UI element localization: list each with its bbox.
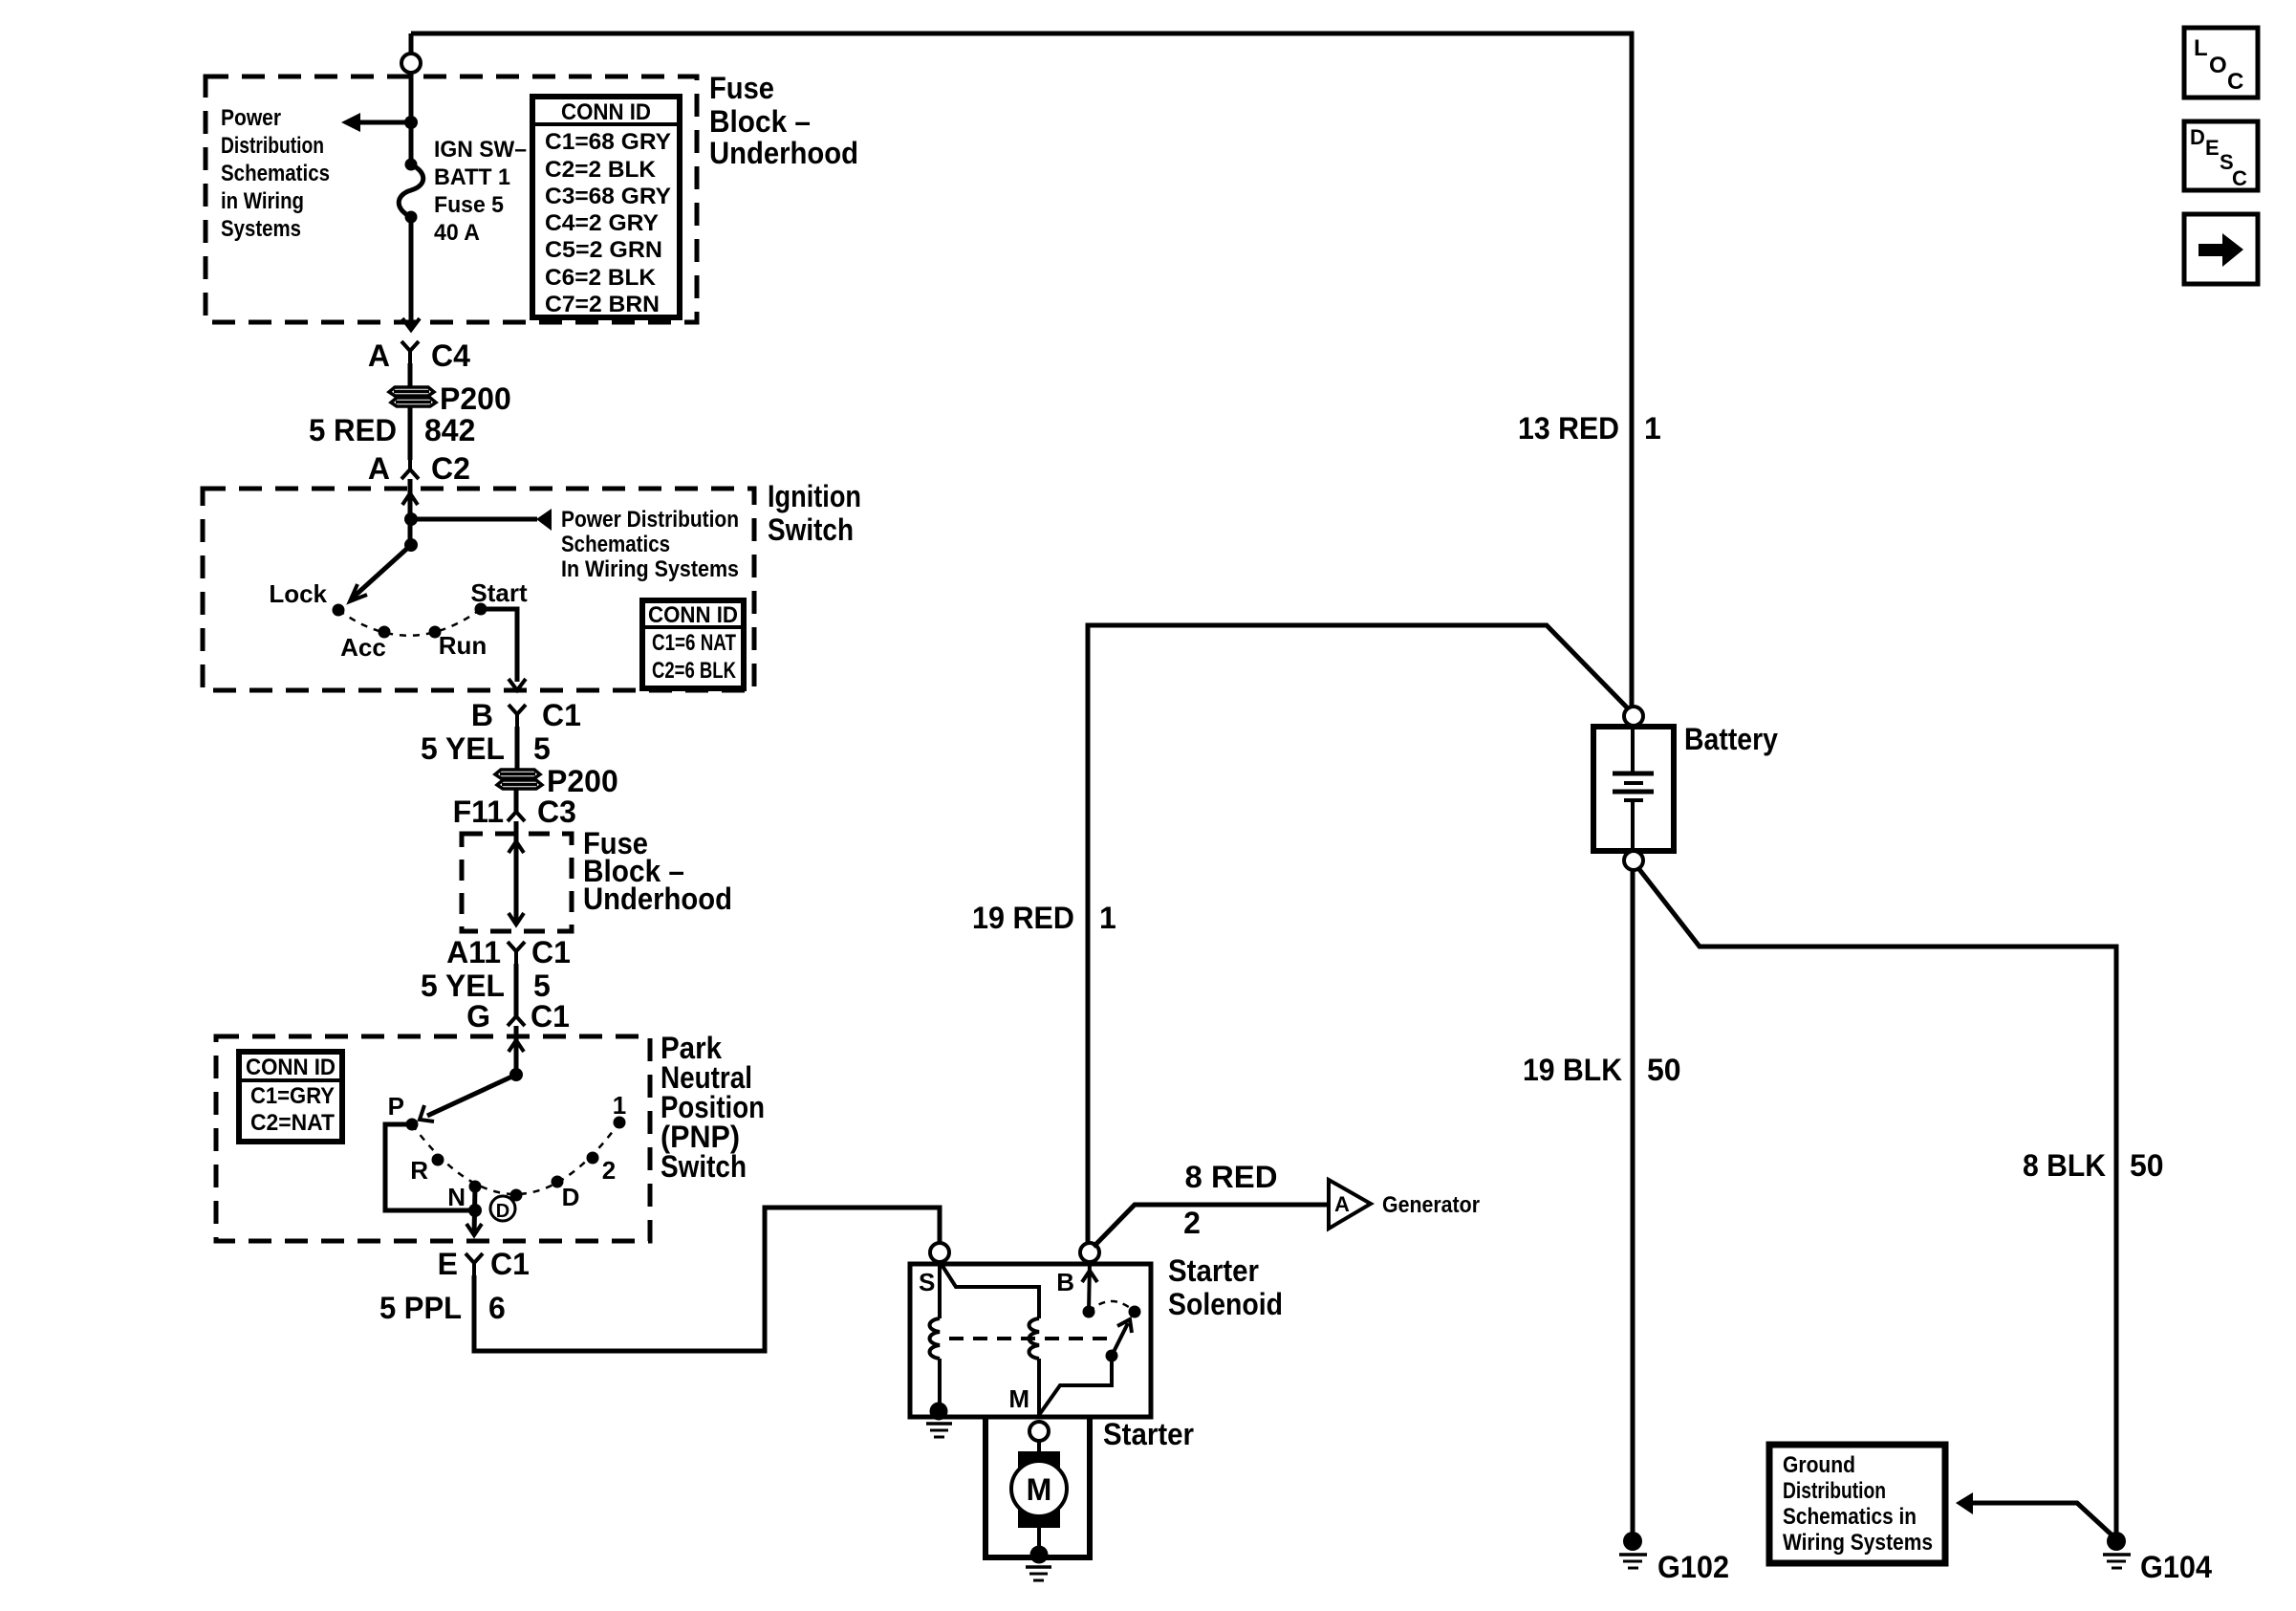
DESC icon box	[2184, 121, 2258, 190]
wire: 13 RED battery feed, top horizontal and right vertical	[411, 33, 1632, 708]
svg-text:Systems: Systems	[221, 216, 301, 242]
svg-text:A11: A11	[446, 935, 501, 969]
svg-text:19 BLK: 19 BLK	[1523, 1053, 1622, 1087]
svg-text:BATT 1: BATT 1	[434, 164, 510, 190]
ground symbol G102	[1619, 1555, 1647, 1568]
splice P200 (upper)	[389, 387, 436, 406]
node: starter ground dot	[1030, 1546, 1049, 1564]
svg-text:in Wiring: in Wiring	[221, 188, 304, 214]
svg-text:CONN ID: CONN ID	[648, 602, 738, 628]
battery negative terminal circle	[1624, 851, 1643, 870]
wire: feed into fuse block	[409, 73, 414, 163]
wire: plunger to M junction	[1039, 1356, 1112, 1415]
contact: Run	[429, 626, 442, 639]
dashed arc of PNP positions	[412, 1122, 619, 1194]
svg-text:Starter: Starter	[1168, 1253, 1259, 1288]
wire: C4 to splice P200	[408, 363, 413, 388]
svg-text:D: D	[562, 1183, 580, 1211]
svg-text:40 A: 40 A	[434, 220, 480, 246]
Battery box	[1593, 727, 1674, 851]
battery cell symbol	[1613, 729, 1654, 848]
switch plunger arm with arrowhead	[1112, 1323, 1128, 1356]
svg-text:Acc: Acc	[340, 633, 386, 662]
svg-text:50: 50	[2130, 1148, 2164, 1183]
svg-text:C7=2 BRN: C7=2 BRN	[545, 292, 660, 317]
svg-text:C2: C2	[431, 451, 470, 486]
wire: 8 RED from B to generator	[1094, 1205, 1329, 1247]
svg-text:P: P	[388, 1092, 404, 1121]
contact: 1	[614, 1117, 626, 1129]
wire label: 5 YEL / 5 (lower)	[421, 969, 551, 1003]
label: Fuse Block - Underhood (lower)	[583, 826, 732, 916]
wire: fuse to connector C4	[409, 223, 414, 329]
svg-text:5: 5	[533, 731, 551, 766]
svg-text:M: M	[1027, 1472, 1052, 1507]
contact dot (moving side)	[1129, 1306, 1141, 1318]
wire: P200 to connector C2	[408, 407, 413, 460]
dashed arc of ignition positions	[338, 609, 481, 636]
value label: IGN SW-BATT 1 Fuse 5 40 A	[434, 137, 527, 246]
coil (hold-in)	[930, 1318, 941, 1359]
svg-text:Schematics in: Schematics in	[1783, 1504, 1917, 1530]
arrowhead leaving PNP switch (down)	[466, 1224, 482, 1235]
svg-text:C2=NAT: C2=NAT	[250, 1110, 335, 1136]
svg-text:S: S	[919, 1268, 935, 1296]
wire inside fuse block with both arrowheads	[514, 841, 519, 925]
svg-text:D: D	[2190, 125, 2205, 149]
svg-text:C1: C1	[531, 935, 571, 969]
wire label: 8 BLK / 50	[2023, 1148, 2164, 1183]
svg-text:P200: P200	[547, 764, 618, 798]
terminal M circle	[1029, 1422, 1049, 1441]
wire: motor to ground	[1037, 1528, 1041, 1555]
svg-text:Run: Run	[439, 631, 487, 660]
contact: Start	[475, 603, 487, 616]
svg-text:Power Distribution: Power Distribution	[561, 507, 739, 533]
connector A11 / C1	[446, 935, 571, 969]
arrowhead leaving ignition switch (down)	[509, 679, 526, 690]
Starter Solenoid box	[910, 1264, 1151, 1417]
svg-text:Distribution: Distribution	[1783, 1478, 1886, 1504]
wire: S diagonal feed to pull-in coil	[941, 1263, 1039, 1318]
svg-text:6: 6	[488, 1291, 506, 1325]
svg-text:1: 1	[1099, 901, 1116, 935]
connector A / C4	[368, 338, 470, 373]
svg-text:C1=68 GRY: C1=68 GRY	[545, 129, 671, 155]
fuse IGN SW-BATT 1 Fuse 5 40 A	[399, 159, 423, 224]
PNP wiper arm to P	[427, 1075, 516, 1116]
svg-text:2: 2	[1183, 1206, 1201, 1240]
svg-text:In Wiring Systems: In Wiring Systems	[561, 556, 739, 582]
svg-text:Underhood: Underhood	[709, 136, 858, 170]
wire: reference line from G104	[1973, 1503, 2114, 1537]
wire: hold-in coil to ground dot	[938, 1359, 942, 1411]
svg-text:Block –: Block –	[709, 104, 811, 139]
svg-text:C4=2 GRY: C4=2 GRY	[545, 210, 659, 236]
svg-text:Battery: Battery	[1684, 722, 1778, 756]
svg-text:2: 2	[602, 1156, 616, 1185]
svg-text:C6=2 BLK: C6=2 BLK	[545, 265, 657, 291]
svg-text:M: M	[1008, 1384, 1029, 1413]
svg-text:C1: C1	[531, 999, 570, 1034]
contact: R	[432, 1154, 444, 1166]
wire: C1 to splice P200	[515, 727, 520, 771]
svg-text:1: 1	[1644, 411, 1661, 446]
CONN ID table (fuse block underhood)	[532, 97, 680, 317]
wire label: 8 RED / 2	[1183, 1160, 1277, 1240]
wire: A11 to G	[514, 964, 519, 1006]
connector B / C1	[471, 698, 581, 732]
svg-text:842: 842	[424, 413, 475, 447]
ground symbol (starter)	[1026, 1567, 1051, 1580]
connector G / C1	[466, 999, 570, 1034]
Ground Distribution reference box	[1769, 1445, 1945, 1563]
node: plunger pivot dot	[1106, 1350, 1118, 1362]
wire label: 19 RED / 1	[972, 901, 1116, 935]
contact: N	[469, 1181, 482, 1193]
connector E / C1	[438, 1247, 530, 1281]
svg-text:C1: C1	[490, 1247, 530, 1281]
svg-text:G104: G104	[2140, 1550, 2212, 1584]
wire: C3 into fuse block	[514, 821, 519, 841]
dashed contact arc	[1089, 1301, 1135, 1312]
svg-text:C: C	[2227, 69, 2243, 95]
svg-text:C1=6 NAT: C1=6 NAT	[652, 630, 736, 656]
svg-text:A: A	[1334, 1192, 1350, 1216]
svg-text:50: 50	[1647, 1053, 1681, 1087]
ground symbol G104	[2103, 1555, 2131, 1568]
svg-text:Schematics: Schematics	[221, 161, 330, 186]
svg-text:5: 5	[533, 969, 551, 1003]
wire: B terminal into contact	[1089, 1262, 1090, 1312]
splice P200 (lower)	[495, 770, 542, 789]
svg-text:Fuse: Fuse	[709, 71, 774, 105]
wire: Start to C1	[481, 609, 517, 682]
label: Fuse Block - Underhood	[709, 71, 858, 170]
Starter box	[986, 1417, 1090, 1557]
Fuse Block - Underhood dashed box	[206, 76, 697, 322]
svg-text:B: B	[471, 698, 493, 732]
dashed mechanical link	[949, 1337, 1109, 1340]
LOC icon box	[2184, 28, 2258, 98]
circled D indicator	[490, 1196, 515, 1222]
svg-text:8 BLK: 8 BLK	[2023, 1148, 2106, 1183]
wire: N contact through junction down	[474, 1186, 475, 1235]
wire label: 5 PPL / 6	[379, 1291, 506, 1325]
wire: pull-in coil to M	[1037, 1359, 1041, 1415]
label: Park Neutral Position (PNP) Switch	[661, 1031, 765, 1184]
node: solenoid ground dot	[930, 1403, 948, 1421]
terminal B circle	[1080, 1243, 1099, 1262]
arrowhead at B (up)	[1082, 1271, 1097, 1282]
wire label: 5 YEL / 5	[421, 731, 551, 766]
svg-text:L: L	[2194, 35, 2208, 61]
svg-text:5 YEL: 5 YEL	[421, 731, 505, 766]
svg-text:Schematics: Schematics	[561, 532, 670, 557]
note: power distribution schematics (ignition)	[561, 507, 739, 582]
contact dot (B side)	[1083, 1306, 1095, 1318]
node: wiper pivot dot	[404, 538, 418, 552]
wire label: 13 RED / 1	[1518, 411, 1661, 446]
svg-text:Starter: Starter	[1103, 1417, 1194, 1451]
svg-text:Switch: Switch	[661, 1149, 747, 1184]
connector A / C2	[368, 451, 470, 486]
svg-text:R: R	[410, 1156, 428, 1185]
svg-text:Wiring Systems: Wiring Systems	[1783, 1530, 1933, 1556]
svg-text:C2=6 BLK: C2=6 BLK	[652, 658, 737, 684]
svg-text:C2=2 BLK: C2=2 BLK	[545, 157, 657, 183]
wire: G into PNP switch	[514, 1026, 519, 1075]
svg-text:Fuse 5: Fuse 5	[434, 192, 504, 218]
wire: P bracket to N junction	[385, 1124, 475, 1210]
svg-text:Generator: Generator	[1382, 1192, 1480, 1218]
svg-text:B: B	[1056, 1268, 1074, 1296]
svg-text:Underhood: Underhood	[583, 882, 732, 916]
svg-text:CONN ID: CONN ID	[561, 99, 651, 125]
battery positive terminal circle	[1624, 707, 1643, 726]
label: Starter Solenoid	[1168, 1253, 1283, 1321]
wire: M to motor	[1037, 1441, 1041, 1453]
off-page triangle A (generator)	[1329, 1180, 1371, 1229]
svg-text:C4: C4	[431, 338, 470, 373]
svg-text:5 RED: 5 RED	[309, 413, 397, 447]
terminal circle at fuse block feed	[401, 54, 421, 73]
svg-text:5 PPL: 5 PPL	[379, 1291, 462, 1325]
connector F11 / C3	[453, 790, 576, 829]
svg-text:19 RED: 19 RED	[972, 901, 1074, 935]
Fuse Block - Underhood dashed box (lower)	[462, 834, 572, 931]
svg-text:C: C	[2232, 166, 2247, 190]
contact: drive dot	[510, 1189, 523, 1202]
wire label: 19 BLK / 50	[1523, 1053, 1681, 1087]
node: G104 ground dot	[2107, 1532, 2126, 1551]
svg-text:P200: P200	[440, 381, 511, 416]
starter motor M	[1011, 1451, 1067, 1528]
node: junction dot to power distribution reference	[404, 116, 418, 129]
arrowhead leaving fuse block (down)	[402, 318, 420, 330]
wire label: 5 RED / 842	[309, 413, 475, 447]
off-page arrow (ground distribution)	[1956, 1492, 1973, 1514]
svg-text:O: O	[2209, 53, 2227, 78]
arrowhead entering ignition switch (up)	[402, 493, 418, 505]
off-page arrow (power distribution)	[341, 113, 360, 132]
svg-text:13 RED: 13 RED	[1518, 411, 1619, 446]
svg-text:E: E	[438, 1247, 458, 1281]
svg-text:5 YEL: 5 YEL	[421, 969, 505, 1003]
wire: reference line right	[411, 517, 537, 522]
svg-text:A: A	[368, 338, 390, 373]
svg-text:A: A	[368, 451, 390, 486]
wire: 19 RED from battery to solenoid B	[1088, 625, 1629, 1243]
switch wiper arm to Lock	[352, 545, 411, 599]
svg-text:8 RED: 8 RED	[1185, 1160, 1278, 1194]
node: PNP wiper pivot dot	[509, 1068, 523, 1081]
svg-text:Ignition: Ignition	[768, 479, 861, 513]
wire: into ignition switch	[408, 479, 413, 545]
svg-text:F11: F11	[453, 795, 504, 829]
contact: Lock	[333, 604, 345, 617]
wire: 5 PPL run to starter solenoid S	[474, 1208, 940, 1351]
node: junction dot to power distribution reference	[404, 512, 418, 526]
coil (pull-in)	[1029, 1318, 1040, 1359]
svg-text:G102: G102	[1657, 1550, 1729, 1584]
svg-text:N: N	[447, 1183, 466, 1211]
svg-text:C3: C3	[537, 795, 576, 829]
svg-text:Solenoid: Solenoid	[1168, 1287, 1283, 1321]
note: ground distribution schematics	[1783, 1452, 1933, 1556]
wire: 19 BLK battery to G102	[1631, 870, 1635, 1537]
svg-text:Ground: Ground	[1783, 1452, 1855, 1478]
svg-text:Power: Power	[221, 105, 281, 131]
svg-text:Switch: Switch	[768, 512, 854, 547]
svg-text:Lock: Lock	[269, 579, 327, 608]
svg-text:Start: Start	[470, 578, 528, 607]
svg-text:C5=2 GRN: C5=2 GRN	[545, 237, 662, 263]
Ignition Switch dashed box	[203, 489, 754, 690]
node: N junction dot	[468, 1204, 482, 1217]
Park Neutral Position (PNP) Switch dashed box	[216, 1036, 650, 1241]
contact: P	[406, 1119, 419, 1131]
terminal S circle	[930, 1243, 949, 1262]
svg-text:CONN ID: CONN ID	[246, 1055, 336, 1080]
ground symbol (solenoid)	[926, 1424, 952, 1437]
node: G102 ground dot	[1623, 1532, 1642, 1551]
next-page arrow icon box	[2184, 214, 2258, 284]
svg-text:C1=GRY: C1=GRY	[250, 1083, 335, 1109]
contact: Acc	[379, 626, 391, 639]
svg-text:D: D	[496, 1201, 509, 1222]
wire: 8 BLK battery to G104	[1638, 868, 2116, 1537]
wire: S terminal down to hold-in coil	[938, 1262, 942, 1318]
contact: D	[552, 1176, 564, 1188]
label: Ignition Switch	[768, 479, 861, 547]
svg-text:G: G	[466, 999, 490, 1034]
svg-text:C1: C1	[542, 698, 581, 732]
arrowhead entering PNP switch (up)	[509, 1040, 524, 1052]
CONN ID table (ignition switch)	[642, 600, 744, 688]
svg-text:Distribution: Distribution	[221, 133, 324, 159]
svg-text:IGN SW–: IGN SW–	[434, 137, 527, 163]
wire: reference arrow line	[360, 120, 411, 125]
svg-text:1: 1	[613, 1091, 626, 1120]
svg-text:C3=68 GRY: C3=68 GRY	[545, 184, 671, 209]
contact: 2	[587, 1152, 599, 1165]
note: power distribution schematics (fuse block)	[221, 105, 330, 242]
CONN ID table (PNP switch)	[239, 1052, 342, 1142]
svg-text:E: E	[2205, 136, 2220, 160]
off-page arrow (power distribution, ignition)	[536, 509, 552, 531]
